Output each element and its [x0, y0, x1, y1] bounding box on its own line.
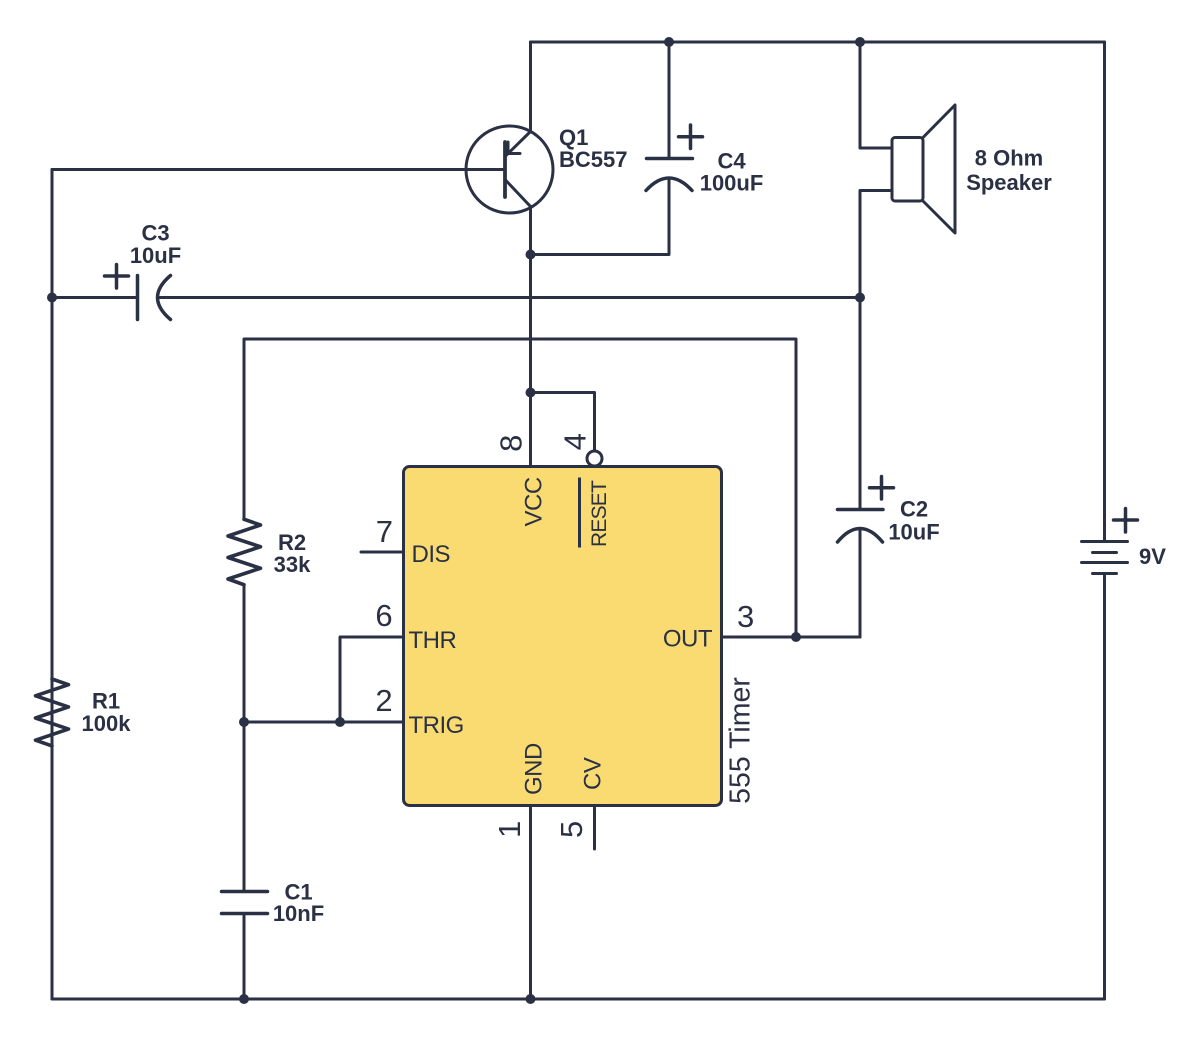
- capacitor C4: [646, 125, 703, 191]
- wire GND pin: [529, 806, 532, 1000]
- label C3: [130, 221, 181, 269]
- node OUT: [791, 632, 801, 642]
- node C4 top: [664, 37, 674, 47]
- resistor R2: [228, 519, 261, 585]
- capacitor C1: [222, 892, 268, 914]
- wire C1 bottom: [243, 914, 246, 1000]
- battery BT1 9V: [1082, 509, 1138, 574]
- wire C3 left: [52, 296, 138, 299]
- resistor R1: [36, 679, 69, 746]
- label C1: [273, 880, 324, 927]
- label speaker: [966, 146, 1052, 196]
- op-amp 555 timer U1 body: [404, 467, 722, 806]
- node speaker top: [855, 37, 865, 47]
- wire left rail: [51, 170, 54, 1000]
- wire C4 bottom: [531, 179, 670, 255]
- wire top rail: [531, 41, 1105, 44]
- svg-text:3: 3: [737, 599, 754, 634]
- node GND bottom: [526, 994, 536, 1004]
- wire Q1 base: [52, 168, 504, 171]
- svg-text:10nF: 10nF: [273, 901, 324, 926]
- wire speaker bottom: [860, 191, 892, 298]
- pin 4 inversion bubble: [587, 451, 602, 466]
- svg-text:Speaker: Speaker: [966, 170, 1052, 195]
- wire right rail (battery top): [1103, 42, 1106, 542]
- transistor Q1: [466, 126, 553, 213]
- node TRIG right: [335, 717, 345, 727]
- label C2: [888, 497, 939, 545]
- label 9V: [1139, 544, 1166, 569]
- capacitor C3: [105, 265, 171, 320]
- svg-text:CV: CV: [580, 757, 607, 790]
- svg-text:10uF: 10uF: [130, 243, 181, 268]
- node C3 left: [47, 293, 57, 303]
- svg-text:33k: 33k: [274, 552, 311, 577]
- svg-text:8: 8: [494, 435, 529, 452]
- capacitor C2: [838, 477, 894, 543]
- svg-text:BC557: BC557: [559, 147, 627, 172]
- label C4: [700, 149, 764, 196]
- wire C1 top: [243, 722, 246, 892]
- svg-text:7: 7: [376, 514, 393, 549]
- svg-text:10uF: 10uF: [888, 520, 939, 545]
- wire VCC reset L: [531, 393, 595, 451]
- svg-text:OUT: OUT: [663, 626, 713, 653]
- wire bottom rail: [52, 998, 1105, 1001]
- wire Q1 collector to VCC pin 8: [529, 207, 532, 467]
- svg-text:VCC: VCC: [521, 477, 548, 526]
- wire speaker top: [860, 42, 892, 148]
- svg-text:100k: 100k: [82, 711, 132, 736]
- wire DIS stub: [361, 551, 404, 554]
- node C3 right: [855, 293, 865, 303]
- wire C4 top: [668, 42, 671, 157]
- svg-text:C2: C2: [900, 497, 928, 522]
- svg-text:THR: THR: [409, 627, 457, 654]
- label R1: [82, 689, 132, 737]
- wire TRIG: [244, 721, 404, 724]
- svg-text:6: 6: [375, 598, 392, 633]
- overline RESET: [578, 478, 581, 548]
- svg-text:1: 1: [492, 821, 527, 838]
- wire C3 right: [159, 296, 860, 299]
- wire C2 bottom: [859, 530, 862, 638]
- wire OUT: [722, 636, 861, 639]
- wire right rail (battery bottom): [1103, 574, 1106, 1000]
- wire C2 top: [859, 298, 862, 510]
- label R2: [274, 530, 311, 577]
- wire R2 loop top: [244, 339, 796, 637]
- node VCC/RESET: [526, 388, 536, 398]
- node Q1 collector / C4: [526, 250, 536, 260]
- node TRIG left: [239, 717, 249, 727]
- svg-text:R1: R1: [92, 689, 120, 714]
- svg-text:100uF: 100uF: [700, 171, 764, 196]
- label Q1: [559, 125, 627, 172]
- svg-text:9V: 9V: [1139, 544, 1166, 569]
- svg-text:4: 4: [557, 433, 592, 450]
- svg-text:RESET: RESET: [588, 480, 611, 547]
- wire THR: [340, 637, 404, 722]
- svg-text:2: 2: [375, 683, 392, 718]
- wire R2 bottom to TRIG: [243, 585, 246, 723]
- wire CV stub: [593, 806, 596, 850]
- pin labels: [375, 433, 756, 838]
- node C1 bottom: [239, 994, 249, 1004]
- svg-text:8 Ohm: 8 Ohm: [975, 146, 1043, 171]
- svg-text:555 Timer: 555 Timer: [724, 677, 756, 804]
- svg-text:5: 5: [554, 821, 589, 838]
- wire Q1 emitter to top rail: [529, 42, 532, 132]
- svg-text:TRIG: TRIG: [409, 712, 464, 739]
- svg-text:GND: GND: [521, 743, 548, 795]
- speaker SP1: [892, 105, 955, 233]
- svg-text:DIS: DIS: [412, 541, 451, 568]
- svg-text:C3: C3: [141, 221, 169, 246]
